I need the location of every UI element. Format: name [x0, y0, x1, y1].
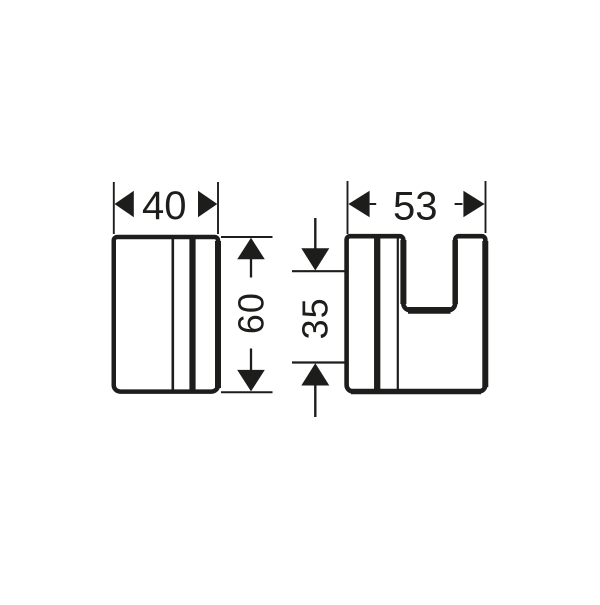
dim 60 extension line bottom — [221, 391, 273, 393]
dim 60 arrow down — [237, 370, 265, 392]
dim 60 line upper segment — [250, 258, 252, 278]
svg-text:53: 53 — [393, 185, 438, 229]
dim 53 stub left — [370, 203, 377, 205]
side view right edge thick — [482, 241, 488, 387]
dim 35 arrow up (bottom, outside) — [301, 363, 329, 385]
dim 40 arrow right — [198, 191, 217, 217]
front view inner thick line — [189, 238, 195, 392]
dim 53 arrow left — [348, 191, 369, 217]
dim 60 arrow up — [237, 238, 265, 259]
dim 60 extension line top — [221, 236, 273, 238]
dim 60 line lower segment — [250, 349, 252, 371]
dim 35 arrow down (top, outside) — [301, 248, 329, 270]
side view hook notch right wall thick — [452, 240, 458, 304]
dim 40 arrow left — [115, 191, 134, 217]
front view right edge thick — [215, 241, 221, 388]
dim 40 extension line right — [217, 182, 219, 234]
dim 53 stub right — [455, 203, 463, 205]
svg-text:40: 40 — [142, 184, 187, 228]
side view outline with hook notch — [347, 236, 486, 391]
dim 53 extension line right — [485, 181, 487, 233]
dim 35 line bottom segment — [314, 385, 316, 417]
side view hook notch left wall thick — [400, 240, 406, 304]
dim 35 tick top — [292, 270, 345, 272]
svg-text:60: 60 — [231, 292, 272, 334]
side view inner thin line — [397, 237, 399, 391]
dim 53 extension line left — [347, 181, 349, 234]
front view inner thin line — [172, 238, 175, 392]
front view outline — [114, 237, 218, 392]
svg-text:35: 35 — [295, 297, 336, 339]
dim 40 extension line left — [113, 182, 115, 234]
dim 53 arrow right — [463, 191, 484, 217]
side view hook notch bottom thick — [408, 307, 451, 314]
side view bottom edge — [351, 389, 481, 395]
side view inner thick line — [374, 237, 380, 391]
dim 35 line top segment — [314, 218, 316, 249]
dim 35 tick bottom — [292, 361, 345, 363]
